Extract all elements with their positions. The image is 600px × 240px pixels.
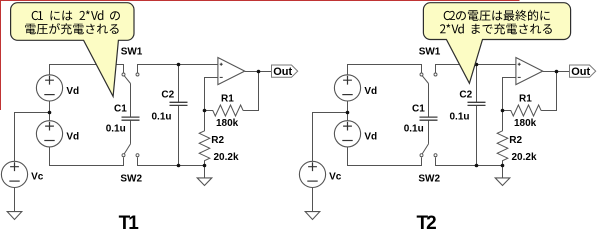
wire between Vd1 and Vd2 (T2) (347, 101, 349, 121)
junction R1/R2/op-amp - (T2) (501, 109, 505, 113)
svg-text:C2: C2 (161, 89, 174, 100)
wire feedback to R1 right (T1) (243, 72, 258, 111)
capacitor C1 (T1) (122, 117, 140, 120)
op-amp U1 (T1) (218, 58, 245, 85)
switch SW2 (T2) (420, 144, 437, 157)
svg-text:20.2k: 20.2k (214, 152, 239, 163)
resistor R1 (T1) (205, 105, 244, 116)
junction C2 bottom (T2) (475, 164, 479, 168)
switch SW1 (T1) (122, 73, 139, 84)
label SW2 (T1) (120, 173, 142, 184)
svg-text:C1: C1 (412, 103, 425, 114)
wire Vc to ground (T2) (312, 188, 314, 212)
voltage source Vc (T1) (1, 161, 27, 187)
svg-text:180k: 180k (216, 118, 239, 129)
label R1 (T2) (519, 93, 532, 104)
svg-text:Vd: Vd (66, 86, 79, 97)
voltage source Vd lower (T1) (36, 121, 62, 147)
svg-text:T2: T2 (417, 213, 437, 234)
wire op-amp output (T2) (543, 71, 570, 73)
junction C2 bottom (T1) (177, 164, 181, 168)
resistor R2 (T1) (199, 111, 210, 166)
label 0.1u (T2) (404, 124, 424, 135)
ground below R2 (T1) (197, 178, 212, 186)
wire C1 top lead (T1) (130, 84, 132, 118)
junction R2 bottom/ground (T2) (501, 164, 505, 168)
label 20.2k (T2) (512, 152, 537, 163)
label 20.2k (T1) (214, 152, 239, 163)
svg-text:R1: R1 (221, 93, 234, 104)
label 0.1u (T2) (450, 112, 470, 123)
svg-text:R1: R1 (519, 93, 532, 104)
svg-text:Out: Out (273, 66, 292, 78)
wire C1 bottom lead (T1) (130, 120, 132, 144)
label SW1 (T1) (121, 46, 143, 57)
label R1 (T1) (221, 93, 234, 104)
label 0.1u (T1) (106, 124, 126, 135)
node Out tag (T2) (570, 65, 596, 78)
junction C2 top (T2) (475, 63, 479, 67)
svg-text:R2: R2 (509, 135, 522, 146)
junction op-amp output (T1) (257, 70, 261, 74)
label Vc (T1) (31, 171, 44, 182)
label C1 (T1) (114, 103, 127, 114)
svg-text:20.2k: 20.2k (512, 152, 537, 163)
wire between Vd1 and Vd2 (T1) (49, 101, 51, 121)
junction R1/R2/op-amp - (T1) (203, 109, 207, 113)
label C2 (T2) (459, 89, 472, 100)
svg-text:0.1u: 0.1u (450, 112, 470, 123)
callout balloon 1: C1 charges to 2*Vd (11, 3, 134, 97)
wire C1 bottom lead (T2) (428, 120, 430, 144)
svg-text:R2: R2 (211, 135, 224, 146)
label Vd (T2) (364, 132, 377, 143)
wire R2 bottom to ground (T1) (204, 166, 206, 178)
callout 2 text line 1: C2 no denatsu ha saishuuteki ni (444, 10, 550, 21)
svg-text:Vc: Vc (329, 171, 342, 182)
callout 1 text line 2: denatsu ga juuden sareru (25, 23, 118, 34)
junction R2 bottom/ground (T1) (203, 164, 207, 168)
wire left rail to Vc (T2) (313, 113, 348, 162)
callout 1 text line 1: C1 niha 2*Vd no (32, 10, 120, 20)
resistor R2 (T2) (497, 111, 508, 166)
callout balloon 2: C2 voltage eventually charges to 2*Vd (423, 3, 570, 84)
switch SW1 (T2) (420, 73, 437, 84)
voltage source Vd upper (T2) (334, 75, 360, 101)
svg-text:Vd: Vd (66, 132, 79, 143)
svg-text:T1: T1 (119, 213, 140, 234)
wire C1 top lead (T2) (428, 84, 430, 118)
svg-text:0.1u: 0.1u (106, 124, 126, 135)
capacitor C1 (T2) (420, 117, 438, 120)
label C1 (T2) (412, 103, 425, 114)
wire Vc to ground (T1) (14, 188, 16, 212)
label C2 (T1) (161, 89, 174, 100)
resistor R1 (T2) (503, 105, 542, 116)
ground below Vc (T1) (7, 212, 22, 220)
svg-text:Vc: Vc (31, 171, 44, 182)
label SW1 (T2) (419, 46, 441, 57)
ground below Vc (T2) (305, 212, 320, 220)
wire Vd1+ to SW1 left (T1) (50, 65, 124, 75)
switch SW2 (T1) (122, 144, 139, 157)
svg-text:Vd: Vd (364, 132, 377, 143)
wire C2 bottom lead (T2) (476, 105, 478, 165)
callout 2 text line 2: 2*Vd made juuden sareru (440, 23, 552, 34)
wire C2 top lead (T2) (476, 65, 478, 103)
wire op-amp output (T1) (245, 71, 272, 73)
wire SW1 right to op-amp + input (T2) (436, 65, 516, 73)
label Vd (T2) (364, 86, 377, 97)
op-amp U1 (T2) (516, 58, 543, 85)
label Vc (T2) (329, 171, 342, 182)
wire feedback to R1 right (T2) (541, 72, 556, 111)
svg-text:Vd: Vd (364, 86, 377, 97)
svg-text:C1: C1 (114, 103, 127, 114)
junction Vd1-/Vd2+ node (T1) (48, 111, 52, 115)
voltage source Vd lower (T2) (334, 121, 360, 147)
svg-text:C2: C2 (459, 89, 472, 100)
red screenshot crop line left (0, 0, 2, 110)
label 180k (T2) (514, 118, 537, 129)
wire left rail to Vc (T1) (15, 113, 50, 162)
label Vd (T1) (66, 86, 79, 97)
wire Vd2- to SW2 left (T2) (348, 147, 422, 166)
capacitor C2 (T1) (170, 102, 188, 105)
wire SW1 right to op-amp + input (T1) (138, 65, 218, 73)
label Vd (T1) (66, 132, 79, 143)
red screenshot crop line top (0, 0, 520, 2)
voltage source Vc (T2) (299, 161, 325, 187)
voltage source Vd upper (T1) (36, 75, 62, 101)
junction Vd1-/Vd2+ node (T2) (346, 111, 350, 115)
label R2 (T1) (211, 135, 224, 146)
junction op-amp output (T2) (555, 70, 559, 74)
wire C2 bottom lead (T1) (178, 105, 180, 165)
label R2 (T2) (509, 135, 522, 146)
label SW2 (T2) (418, 173, 440, 184)
svg-text:180k: 180k (514, 118, 537, 129)
wire C2 top lead (T1) (178, 65, 180, 103)
svg-text:Out: Out (571, 66, 590, 78)
ground below R2 (T2) (495, 178, 510, 186)
wire Vd2- to SW2 left (T1) (50, 147, 124, 166)
svg-text:SW1: SW1 (121, 46, 143, 57)
wire SW2 right to R2 bottom (T2) (436, 157, 503, 165)
wire op-amp - input to R1/R2 node (T2) (503, 78, 516, 111)
svg-text:SW2: SW2 (120, 173, 142, 184)
svg-text:SW2: SW2 (418, 173, 440, 184)
label 0.1u (T1) (152, 112, 172, 123)
capacitor C2 (T2) (468, 102, 486, 105)
wire Vd1+ to SW1 left (T2) (348, 65, 422, 75)
wire R2 bottom to ground (T2) (502, 166, 504, 178)
svg-text:SW1: SW1 (419, 46, 441, 57)
wire op-amp - input to R1/R2 node (T1) (205, 78, 218, 111)
node Out tag (T1) (272, 65, 298, 78)
svg-text:0.1u: 0.1u (404, 124, 424, 135)
svg-text:0.1u: 0.1u (152, 112, 172, 123)
wire SW2 right to R2 bottom (T1) (138, 157, 205, 165)
junction C2 top (T1) (177, 63, 181, 67)
label 180k (T1) (216, 118, 239, 129)
